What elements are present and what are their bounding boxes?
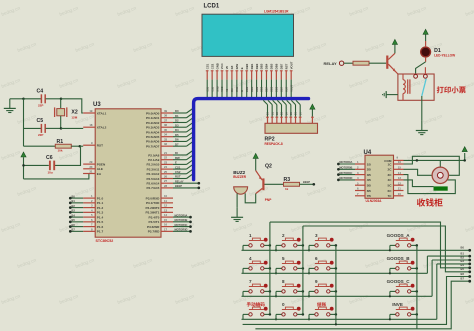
svg-text:P3.0/RXD: P3.0/RXD — [146, 196, 161, 200]
svg-text:DB7: DB7 — [281, 86, 284, 92]
wire C5 junction to XTAL2 — [61, 127, 83, 129]
svg-text:VCC: VCC — [220, 63, 224, 69]
node junction right lead on column 4 — [416, 313, 419, 316]
svg-text:P1.2: P1.2 — [97, 206, 104, 210]
svg-text:12: 12 — [398, 181, 402, 185]
LCD1 pin 7 R/W — [235, 64, 239, 80]
LCD1 pin 5 V0 — [225, 65, 229, 79]
wire net D5 P0 to bus — [173, 132, 194, 137]
wire to RST pin — [80, 145, 83, 147]
wire button left lead down — [275, 314, 277, 319]
button key 4 — [243, 261, 270, 270]
svg-text:34: 34 — [164, 133, 168, 137]
svg-text:16: 16 — [398, 160, 402, 164]
U4 pin 5 5B — [355, 181, 372, 187]
svg-text:DB2: DB2 — [255, 63, 259, 69]
LCD1 pin 16 DB7 — [280, 63, 284, 79]
capacitor C6 10u — [24, 155, 55, 175]
svg-text:5: 5 — [282, 256, 285, 261]
wire keypad row 1 — [242, 249, 470, 251]
wire button left lead down — [275, 268, 277, 273]
U3 pin 25 P2.4/A12 — [146, 170, 173, 176]
svg-text:GOODS_A: GOODS_A — [387, 233, 411, 238]
svg-text:B1: B1 — [72, 199, 76, 203]
LCD1 pin 11 DB2 — [255, 63, 259, 79]
svg-text:1: 1 — [249, 233, 252, 238]
node junction left lead — [389, 318, 391, 320]
svg-text:15: 15 — [164, 218, 168, 222]
U4 pin 13 4C — [388, 176, 404, 182]
svg-text:13: 13 — [398, 176, 402, 180]
wire LCD pin to bus — [275, 80, 277, 98]
node junction on column — [335, 267, 338, 270]
svg-text:39: 39 — [164, 109, 168, 113]
buzzer BUZ2 — [233, 170, 247, 194]
U3 pin 39 P0.0/AD0 — [146, 109, 173, 115]
U4 pin 12 5C — [388, 181, 404, 187]
node junction on column — [302, 313, 305, 316]
wire LCD pin to bus — [236, 80, 238, 98]
wire keypad column 4 vertical + route to B7 — [255, 245, 471, 328]
svg-text:P0.3/AD3: P0.3/AD3 — [146, 126, 160, 130]
U3 pin 38 P0.1/AD1 — [146, 114, 173, 120]
svg-text:P1.7: P1.7 — [97, 230, 104, 234]
power arrow RP2 — [310, 104, 315, 109]
svg-text:25: 25 — [164, 170, 168, 174]
svg-text:D2: D2 — [175, 119, 179, 123]
svg-text:INVE: INVE — [392, 302, 403, 307]
svg-text:MOTOR0B: MOTOR0B — [175, 218, 188, 222]
svg-text:P0.4/AD4: P0.4/AD4 — [146, 130, 160, 134]
svg-text:DB6: DB6 — [276, 86, 279, 92]
svg-text:MOTOR0D: MOTOR0D — [175, 228, 188, 232]
wire buzzer left pin to ground — [236, 193, 238, 207]
button key 7 — [243, 284, 270, 293]
wire net CS1 P2 to bus — [173, 164, 194, 169]
button key 6 — [309, 261, 336, 270]
wire button left lead down — [308, 268, 310, 273]
svg-text:B7: B7 — [72, 228, 76, 232]
svg-text:R1: R1 — [57, 139, 64, 145]
wire LCD pin to bus — [231, 80, 233, 98]
wire button left lead down — [308, 314, 310, 319]
svg-text:22P: 22P — [38, 133, 43, 137]
button key 1 — [243, 238, 270, 247]
wire net RW P2 to bus — [173, 155, 194, 160]
capacitor C5 — [24, 118, 62, 137]
svg-text:STC89C52: STC89C52 — [96, 239, 114, 243]
wire button left lead down — [389, 291, 391, 296]
wire LCD pin to bus — [285, 80, 287, 98]
svg-text:BUZZER: BUZZER — [233, 175, 247, 179]
wire net MOTOR0A to U4 — [337, 160, 355, 165]
svg-text:VOUT: VOUT — [290, 84, 293, 91]
U3 pin 1 P1.0 — [83, 194, 103, 200]
LCD1 pin 4 VCC — [220, 63, 224, 79]
svg-text:MOTOR0C: MOTOR0C — [175, 223, 188, 227]
svg-text:RELAY: RELAY — [175, 179, 184, 183]
svg-text:27: 27 — [164, 179, 168, 183]
svg-text:MOTOR0A: MOTOR0A — [339, 160, 352, 164]
svg-text:B2: B2 — [461, 255, 465, 259]
wire keypad column 1 vertical + route to B4 — [270, 222, 471, 314]
wire bus to RP2 pin 9 — [296, 100, 302, 123]
svg-text:Q2: Q2 — [265, 164, 272, 170]
wire LCD pin to bus — [256, 80, 258, 98]
wire keypad row 4 — [242, 318, 437, 320]
svg-text:38: 38 — [164, 114, 168, 118]
U3 pin 33 P0.6/AD6 — [146, 137, 173, 143]
svg-text:P3.6/WR: P3.6/WR — [147, 225, 160, 229]
svg-text:14: 14 — [164, 213, 168, 217]
node junction on column — [335, 290, 338, 293]
svg-text:DB4: DB4 — [265, 63, 269, 69]
svg-text:P0.0/AD0: P0.0/AD0 — [146, 111, 160, 115]
node RELAY terminal — [324, 61, 344, 66]
LCD1 pin 8 E — [240, 67, 244, 79]
svg-text:B5: B5 — [72, 218, 76, 222]
U4 pin 6 6B — [355, 187, 372, 193]
svg-text:14: 14 — [398, 171, 402, 175]
wire button left lead down — [275, 291, 277, 296]
U3 pin 8 P1.7 — [83, 227, 103, 233]
svg-text:CS2: CS2 — [210, 63, 214, 69]
svg-text:ALE: ALE — [97, 167, 103, 171]
U3 pin 5 P1.4 — [83, 213, 103, 219]
wire Q2 base to R3 — [265, 183, 284, 185]
svg-text:15: 15 — [398, 166, 402, 170]
button key 0 — [276, 307, 303, 316]
svg-text:36: 36 — [164, 123, 168, 127]
svg-text:VCC: VCC — [221, 86, 224, 91]
svg-text:24: 24 — [164, 165, 168, 169]
U3 pin 7 P1.6 — [83, 223, 103, 229]
svg-text:30: 30 — [89, 165, 93, 169]
U3 STC89C52 microcontroller body — [95, 109, 161, 237]
node junction at C4 left — [22, 98, 25, 101]
svg-text:26: 26 — [164, 175, 168, 179]
wire LCD pin to bus — [246, 80, 248, 98]
wire net RST P2 to bus — [173, 174, 194, 179]
node junction on column — [269, 267, 272, 270]
LCD1 pin 12 DB3 — [260, 63, 264, 79]
svg-text:18: 18 — [89, 123, 93, 127]
svg-text:CS2: CS2 — [175, 170, 181, 174]
svg-text:MOTOR0D: MOTOR0D — [339, 176, 352, 180]
svg-text:P3.5/T1: P3.5/T1 — [149, 220, 160, 224]
wire power stem down — [23, 157, 25, 179]
LCD1 pin 9 DB0 — [245, 63, 249, 79]
svg-text:35: 35 — [164, 128, 168, 132]
U3 pin 31 EA — [83, 170, 102, 176]
svg-text:2: 2 — [282, 233, 285, 238]
svg-text:9: 9 — [315, 279, 318, 284]
svg-text:P2.3/A11: P2.3/A11 — [147, 167, 160, 171]
svg-text:E: E — [240, 67, 244, 69]
wire power to Q2 emitter — [255, 159, 257, 171]
wire ground to C4 junction — [10, 98, 24, 100]
wire net B3 routing — [437, 259, 471, 319]
svg-text:P2.4/A12: P2.4/A12 — [146, 172, 159, 176]
bus wire (blue) — [194, 99, 309, 180]
svg-text:BEEP: BEEP — [303, 180, 310, 184]
U4 pin 14 3C — [388, 171, 404, 177]
svg-text:ULN2003A: ULN2003A — [366, 199, 383, 203]
svg-text:P2.2/A10: P2.2/A10 — [146, 163, 159, 167]
U3 pin 4 P1.3 — [83, 208, 103, 214]
svg-text:RST: RST — [284, 63, 288, 69]
svg-text:BUZ2: BUZ2 — [233, 170, 245, 175]
svg-text:B0: B0 — [72, 194, 76, 198]
svg-text:19: 19 — [89, 109, 93, 113]
wire D1 to relay switch — [425, 57, 427, 62]
wire net D3 P0 to bus — [173, 122, 194, 127]
button key 2 — [276, 238, 303, 247]
svg-text:DB1: DB1 — [250, 63, 254, 69]
wire power to D1 — [425, 34, 427, 41]
svg-text:DI: DI — [175, 151, 178, 155]
svg-text:B6: B6 — [72, 223, 76, 227]
svg-text:GOODS_C: GOODS_C — [387, 279, 411, 284]
wire LCD pin to bus — [226, 80, 228, 98]
ground at relay coil (rotated) — [383, 91, 398, 98]
node junction on column — [269, 313, 272, 316]
wire EA to power — [24, 174, 89, 179]
U4 pin 1 1B — [355, 160, 372, 166]
U3 pin 35 P0.4/AD4 — [146, 128, 173, 134]
svg-text:MOTOR0A: MOTOR0A — [175, 213, 188, 217]
power arrow Q2 — [253, 153, 258, 158]
wire button left lead down — [242, 245, 244, 250]
svg-text:P1.6: P1.6 — [97, 225, 104, 229]
wire LCD pin to bus — [265, 80, 267, 98]
svg-text:0: 0 — [282, 302, 285, 307]
svg-text:V0: V0 — [225, 65, 229, 69]
wire U4 4C to motor lower left — [404, 180, 434, 187]
svg-text:P3.4/T0: P3.4/T0 — [149, 215, 160, 219]
node junction R1 right / RST — [79, 145, 82, 148]
wire net BEEP from R3 — [300, 180, 316, 186]
power arrow motor — [462, 147, 467, 152]
U3 pin 34 P0.5/AD5 — [146, 133, 173, 139]
wire LCD pin to bus — [206, 80, 208, 98]
svg-text:CS1: CS1 — [206, 86, 209, 91]
U3 pin 3 P1.2 — [83, 204, 103, 210]
svg-text:CS1: CS1 — [175, 165, 181, 169]
svg-text:3: 3 — [315, 233, 318, 238]
svg-text:DB2: DB2 — [256, 86, 259, 92]
node junction on column — [335, 244, 338, 247]
svg-text:D5: D5 — [175, 133, 179, 137]
button key 5 — [276, 261, 303, 270]
U3 pin 21 P2.0/A8 — [148, 151, 173, 157]
U4 pin 3 3B — [355, 171, 372, 177]
U3 pin 9 RST — [83, 141, 103, 147]
svg-text:12: 12 — [164, 204, 168, 208]
svg-text:MOTOR0B: MOTOR0B — [339, 166, 352, 170]
wire C6 right plate up to RST net — [55, 146, 81, 165]
LCD1 pin 2 CS2 — [210, 63, 214, 79]
svg-text:DB5: DB5 — [270, 63, 274, 69]
wire U4 2C to motor left — [404, 169, 433, 175]
U4 pin 10 7C — [388, 192, 404, 198]
svg-text:7: 7 — [249, 279, 252, 284]
U4 pin 16 1C — [388, 160, 404, 166]
svg-text:R/W: R/W — [235, 64, 239, 70]
svg-text:DB6: DB6 — [275, 63, 279, 69]
svg-text:1k: 1k — [285, 187, 289, 191]
wire net DI P2 to bus — [173, 150, 194, 155]
wire net MOTOR0C on P3 — [173, 223, 192, 228]
wire C4 junction to XTAL1 — [61, 99, 83, 113]
wire net B0 on P1.0 — [69, 194, 83, 199]
svg-text:CS2: CS2 — [211, 86, 214, 91]
svg-text:DB7: DB7 — [280, 63, 284, 69]
svg-text:17: 17 — [164, 227, 168, 231]
svg-text:P2.0/A8: P2.0/A8 — [148, 153, 159, 157]
U4 pin 15 2C — [388, 166, 404, 172]
node junction left lead — [389, 249, 391, 251]
wire net B1 on P1.1 — [69, 199, 83, 204]
node junction left lead — [275, 249, 277, 251]
svg-text:DB0: DB0 — [246, 86, 249, 92]
wire net B7 on P1.7 — [69, 228, 83, 233]
svg-text:GND: GND — [215, 63, 219, 69]
node junction left lead — [275, 318, 277, 320]
node junction right lead on column 4 — [416, 267, 419, 270]
LED D1 LED-YELLOW — [421, 47, 455, 58]
wire bus to RP2 pin 8 — [291, 100, 297, 123]
svg-text:P2.7/A15: P2.7/A15 — [146, 186, 159, 190]
node junction left lead — [389, 272, 391, 274]
U3 pin 22 P2.1/A9 — [148, 156, 173, 162]
svg-text:6: 6 — [315, 256, 318, 261]
power arrow D1 — [423, 29, 428, 34]
U3 pin 10 P3.0/RXD — [146, 194, 173, 200]
wire Q2 collector to buzzer — [245, 193, 256, 203]
svg-text:D6: D6 — [175, 138, 179, 142]
svg-text:8: 8 — [282, 279, 285, 284]
wire button left lead down — [389, 268, 391, 273]
svg-text:C5: C5 — [37, 118, 44, 124]
svg-text:RESPACK-8: RESPACK-8 — [265, 142, 283, 146]
svg-text:RST: RST — [285, 86, 288, 91]
node junction on column — [302, 290, 305, 293]
wire bus to RP2 pin 4 — [273, 100, 279, 123]
node junction on column — [302, 267, 305, 270]
button key 3 — [309, 238, 336, 247]
wire bus to RP2 pin 6 — [282, 100, 288, 123]
svg-text:B2: B2 — [72, 204, 76, 208]
driver U4 ULN2003A — [364, 150, 399, 203]
wire net MOTOR0B to U4 — [337, 166, 355, 171]
LCD1 pin 3 GND — [215, 63, 219, 80]
wire button left lead down — [242, 314, 244, 319]
wire LCD pin to bus — [290, 80, 292, 98]
U3 pin 15 P3.5/T1 — [149, 218, 173, 224]
motor (cash drawer) — [432, 167, 448, 191]
svg-text:XTAL2: XTAL2 — [97, 126, 107, 130]
svg-text:D0: D0 — [175, 109, 179, 113]
svg-text:32: 32 — [164, 142, 168, 146]
wire U4 3C to motor lower right — [404, 175, 456, 194]
svg-text:33: 33 — [164, 137, 168, 141]
U4 pin 7 7B — [355, 192, 372, 198]
U3 pin 11 P3.1/TXD — [146, 199, 173, 205]
wire bus to RP2 pin 2 — [263, 100, 269, 123]
svg-text:C4: C4 — [37, 89, 44, 95]
svg-text:P3.2/INT0: P3.2/INT0 — [145, 206, 159, 210]
svg-text:BEEP: BEEP — [175, 184, 182, 188]
ground near C4 — [4, 99, 16, 113]
node junction right lead on column 4 — [416, 290, 419, 293]
svg-text:P1.4: P1.4 — [97, 215, 104, 219]
U3 pin 30 ALE — [83, 165, 103, 171]
wire net MOTOR0C to U4 — [337, 171, 355, 176]
wire LCD pin to bus — [280, 80, 282, 98]
svg-text:DB5: DB5 — [271, 86, 274, 92]
svg-text:VOUT: VOUT — [289, 61, 293, 69]
svg-text:10u: 10u — [48, 171, 53, 175]
svg-text:X2: X2 — [71, 110, 77, 116]
resistor R1 10k — [24, 139, 80, 152]
svg-text:B4: B4 — [72, 213, 76, 217]
node junction left lead — [308, 249, 310, 251]
wire net B5 on P1.5 — [69, 218, 83, 223]
node junction on column — [269, 244, 272, 247]
svg-text:10: 10 — [164, 194, 168, 198]
svg-text:P0.5/AD5: P0.5/AD5 — [146, 135, 160, 139]
node junction left lead — [389, 295, 391, 297]
U3 pin 13 P3.3/INT1 — [145, 208, 173, 214]
button key 9 — [309, 284, 336, 293]
U3 pin 19 XTAL1 — [83, 109, 106, 115]
svg-text:RELAY: RELAY — [324, 61, 338, 66]
wire LCD pin to bus — [216, 80, 218, 98]
svg-text:B7: B7 — [461, 277, 465, 281]
U3 pin 17 P3.7/RD — [148, 227, 173, 233]
wire net D6 P0 to bus — [173, 136, 194, 141]
wire keypad row 3 — [242, 295, 433, 297]
svg-text:LED-YELLOW: LED-YELLOW — [434, 54, 455, 58]
wire button left lead down — [389, 314, 391, 319]
U3 pin 18 XTAL2 — [83, 123, 106, 129]
svg-text:B6: B6 — [461, 272, 465, 276]
wire net D0 P0 to bus — [173, 108, 194, 113]
wire R2 to Q1 base — [369, 62, 386, 64]
svg-text:LGM12641BS1R: LGM12641BS1R — [264, 10, 289, 14]
svg-text:D4: D4 — [175, 128, 179, 132]
ground below buzzer — [231, 208, 243, 222]
LCD1 pin 10 DB1 — [250, 63, 254, 79]
wire LCD pin to bus — [241, 80, 243, 98]
svg-text:DB1: DB1 — [251, 86, 254, 92]
wire LCD pin to bus — [251, 80, 253, 98]
LCD1 pin 13 DB4 — [265, 63, 269, 79]
wire net D2 P0 to bus — [173, 117, 194, 122]
U3 pin 36 P0.3/AD3 — [146, 123, 173, 129]
wire net B2 routing — [432, 255, 471, 296]
node junction right lead on column 4 — [416, 244, 419, 247]
svg-text:D/I: D/I — [230, 66, 234, 70]
svg-text:P3.3/INT1: P3.3/INT1 — [145, 211, 159, 215]
U3 pin 37 P0.2/AD2 — [146, 118, 173, 124]
svg-text:P1.1: P1.1 — [97, 201, 104, 205]
U3 pin 6 P1.5 — [83, 218, 103, 224]
U3 pin 27 P2.6/A14 — [146, 179, 173, 185]
wire button left lead down — [308, 291, 310, 296]
svg-text:22: 22 — [164, 156, 168, 160]
